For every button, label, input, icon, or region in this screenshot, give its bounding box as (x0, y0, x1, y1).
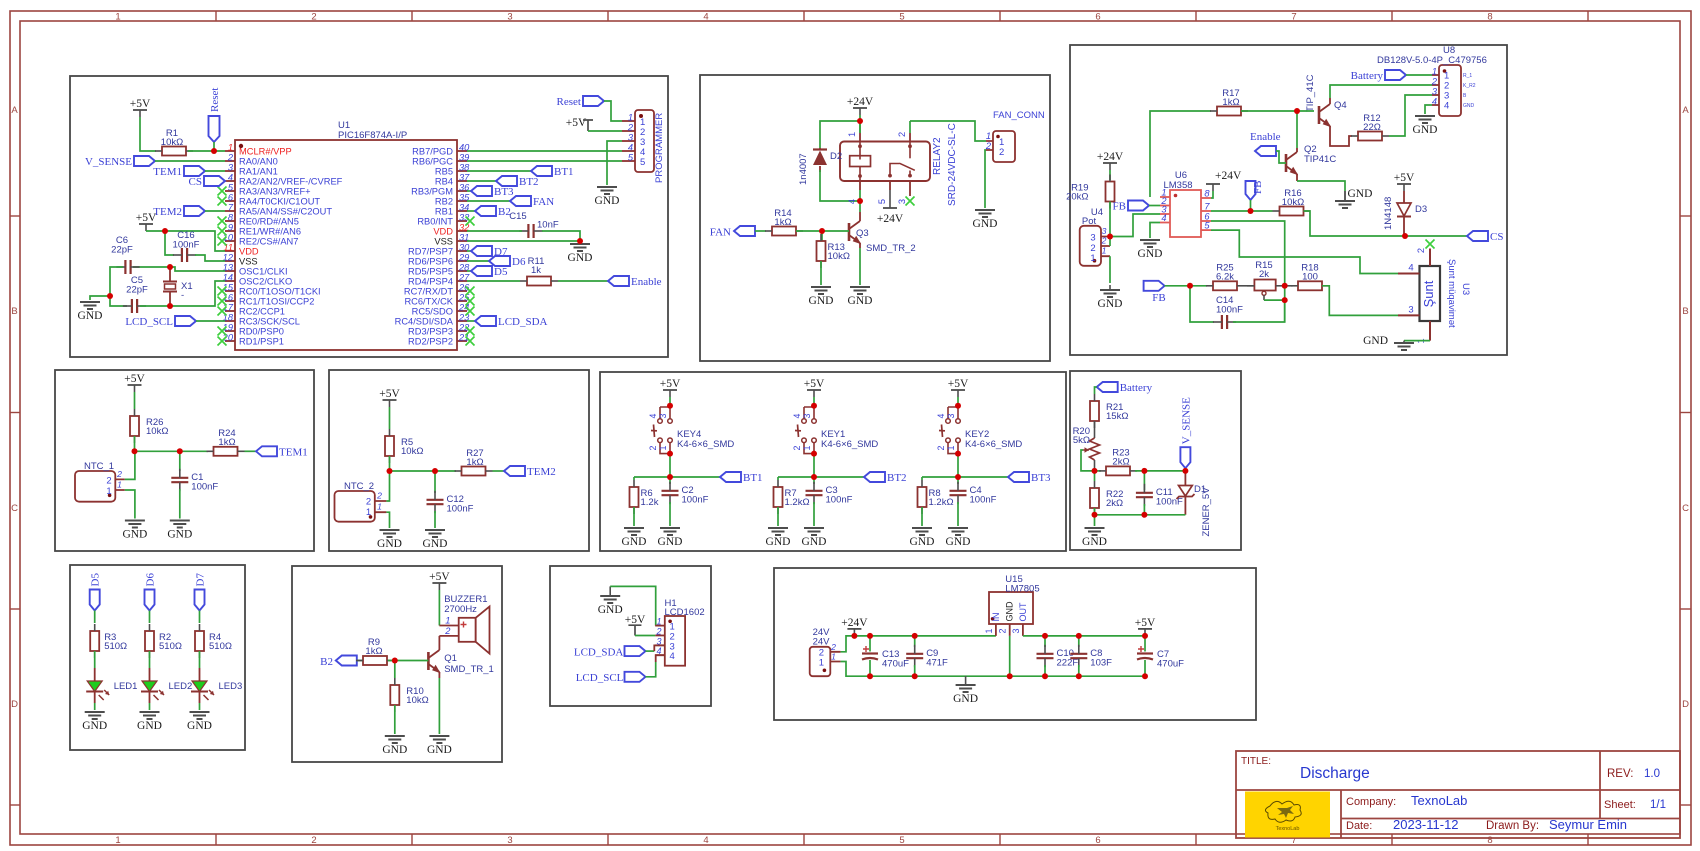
LED LED2 (141, 668, 192, 703)
svg-text:BT1: BT1 (554, 166, 574, 178)
wire C8 top (1078, 636, 1080, 647)
wire junction to C4 (957, 477, 959, 484)
svg-text:RB2: RB2 (435, 197, 453, 207)
svg-text:4: 4 (936, 413, 946, 418)
Enable label (1250, 131, 1281, 143)
svg-text:GND: GND (1413, 124, 1438, 136)
net flag TEM2 (153, 206, 205, 218)
wire junction to R24 (135, 450, 209, 452)
wire R27 to TEM2 (493, 470, 505, 472)
svg-text:19: 19 (223, 323, 233, 333)
junction (1142, 673, 1148, 679)
svg-text:10kΩ: 10kΩ (1282, 197, 1304, 208)
block border: discharge control section (1070, 45, 1507, 355)
ground (FAN_CONN) (973, 210, 998, 230)
wire R19 to pot junction (1109, 202, 1111, 237)
crystal X1 (163, 267, 193, 306)
junction (1187, 283, 1193, 289)
resistor R11 (520, 256, 558, 286)
svg-text:4: 4 (1432, 97, 1437, 107)
pin4 jog (656, 655, 665, 662)
svg-text:+5V: +5V (379, 388, 400, 400)
ground (LCD pin1) (598, 586, 623, 616)
no-connect X (218, 327, 227, 336)
power +5V KEY4 (660, 378, 681, 397)
wire U6 pin6 down to C14 junction (1211, 221, 1285, 322)
ground (VDD bypass) (568, 244, 593, 264)
svg-text:GND: GND (78, 310, 103, 322)
svg-text:BT3: BT3 (1031, 472, 1051, 484)
junction (167, 264, 173, 270)
svg-text:D7: D7 (195, 573, 207, 587)
svg-text:A: A (11, 105, 18, 116)
net flag D5 (90, 573, 102, 611)
svg-text:1: 1 (1432, 67, 1437, 77)
ground (C2) (658, 528, 683, 548)
svg-text:GND: GND (802, 536, 827, 548)
no-connect X (466, 307, 475, 316)
wire FB to R25 (1165, 285, 1207, 287)
svg-text:471F: 471F (926, 658, 948, 669)
wire R9 to Q1 base (388, 660, 428, 662)
wire R2 to LED (149, 651, 151, 668)
svg-text:1: 1 (115, 835, 120, 846)
svg-text:Pot: Pot (1082, 216, 1097, 227)
junction (1282, 283, 1288, 289)
resistor R16 (1273, 188, 1311, 216)
svg-text:+24V: +24V (1215, 170, 1242, 182)
net flag D6 (489, 256, 526, 268)
svg-text:+5V: +5V (948, 378, 969, 390)
junction (162, 228, 168, 234)
svg-text:100nF: 100nF (970, 495, 997, 506)
column ticks bottom (216, 834, 1588, 845)
LED LED1 (86, 668, 137, 703)
svg-text:OSC2/CLKO: OSC2/CLKO (239, 277, 292, 287)
wire to C16 (165, 231, 174, 255)
svg-text:LED3: LED3 (219, 681, 243, 692)
block border: buzzer section (292, 566, 502, 762)
wire junction to R18 (1285, 285, 1293, 287)
ground (psu) (953, 676, 978, 705)
wire R10 to GND (394, 705, 396, 734)
ground (R10) (382, 736, 407, 756)
svg-text:GND: GND (382, 744, 407, 756)
capacitor C15 (509, 211, 559, 238)
resistor R23 (1099, 448, 1137, 476)
svg-text:Drawn By:: Drawn By: (1486, 820, 1539, 832)
resistor R2 (145, 624, 182, 658)
svg-text:+5V: +5V (429, 571, 450, 583)
capacitor C14 (1213, 295, 1243, 329)
wire gnd rail to C5 (110, 296, 127, 306)
wire R18 to shunt pin3 (1322, 286, 1398, 316)
svg-text:RD6/PSP6: RD6/PSP6 (408, 257, 453, 267)
svg-text:5: 5 (640, 157, 645, 168)
net flag V_SENSE (85, 156, 155, 168)
svg-text:1.2kΩ: 1.2kΩ (785, 497, 810, 508)
svg-text:RD7/PSP7: RD7/PSP7 (408, 247, 453, 257)
svg-text:LM358: LM358 (1163, 180, 1192, 191)
svg-text:B: B (11, 306, 17, 317)
wire junction to R22 (1094, 471, 1096, 481)
wire R6 to GND (633, 507, 635, 526)
svg-text:GND: GND (1463, 103, 1475, 109)
transistor Q1 (428, 650, 440, 673)
net flag LCD_SCL (out) (625, 672, 646, 682)
wire Battery to U8 pin1 (1406, 74, 1432, 76)
svg-text:24V: 24V (813, 637, 831, 648)
wire BT2 row (778, 476, 864, 478)
wire pin27 to R11 (467, 280, 520, 282)
resistor R22 (1090, 481, 1123, 515)
wire LCD_SCL (646, 662, 656, 677)
wire LED2 to GND (149, 703, 151, 710)
no-connect X (218, 297, 227, 306)
svg-text:D2: D2 (830, 151, 842, 162)
wire C8 bottom (1078, 665, 1080, 676)
net flag TEM1 (153, 166, 205, 178)
zener diode D1 ZENER_5V (1177, 471, 1213, 537)
wire R20 wiper to junction (1081, 450, 1095, 471)
wire +5V to R26 (134, 392, 136, 409)
power +5V (136, 212, 157, 231)
relay pin stubs and numbers (847, 121, 910, 208)
wire C14 to R15 junction (1233, 300, 1285, 322)
svg-text:RD3/PSP3: RD3/PSP3 (408, 327, 453, 337)
title text Discharge (1300, 765, 1370, 782)
net flag FAN (510, 196, 554, 208)
svg-text:GND: GND (1098, 298, 1123, 310)
resistor R26 (130, 409, 168, 443)
U1 left pins 1-20 with names (222, 143, 343, 347)
svg-text:Enable: Enable (1250, 131, 1281, 143)
wire +24V to D2 cathode (820, 121, 860, 148)
svg-text:2: 2 (227, 153, 234, 163)
svg-text:1: 1 (831, 652, 836, 662)
wire to R8 (921, 477, 923, 480)
wire Enable to Q2 base (1276, 151, 1286, 163)
svg-text:4: 4 (792, 413, 802, 418)
svg-text:RB6/PGC: RB6/PGC (412, 157, 453, 167)
svg-text:VSS: VSS (434, 237, 453, 247)
wire top rail right (1023, 635, 1145, 637)
wire LCD_SCL to pin18 (196, 320, 225, 322)
ground (LED2) (137, 712, 162, 732)
wire R12 to U8 pin3 (1389, 95, 1432, 136)
power +5V (psu out) (1135, 617, 1156, 636)
ground (C1) (167, 521, 192, 541)
svg-text:1kΩ: 1kΩ (774, 217, 791, 228)
pin3 jog (654, 645, 665, 651)
svg-text:100nF: 100nF (1156, 497, 1183, 508)
wire pot pin1 to GND (1109, 256, 1111, 283)
wire C7 top (1144, 636, 1146, 652)
svg-text:NTC_2: NTC_2 (344, 481, 374, 492)
net flag D7 (471, 246, 508, 258)
svg-text:2kΩ: 2kΩ (1112, 457, 1129, 468)
wire LCD_SDA (646, 650, 655, 652)
junction (857, 198, 863, 204)
junction (1042, 673, 1048, 679)
svg-text:+24V: +24V (847, 96, 874, 108)
svg-text:RB4: RB4 (435, 177, 453, 187)
svg-text:3: 3 (658, 413, 668, 418)
resistor R5 (385, 429, 423, 463)
net flag BT2 (496, 176, 539, 188)
net flag FAN (input) (734, 226, 755, 236)
svg-text:PIC16F874A-I/P: PIC16F874A-I/P (338, 130, 407, 141)
svg-text:Q4: Q4 (1334, 100, 1347, 111)
resistor R7 (774, 480, 810, 514)
wire NTC pin2 to junction (125, 451, 135, 479)
svg-text:GND: GND (167, 529, 192, 541)
svg-text:RELAY2: RELAY2 (932, 137, 943, 175)
svg-text:LM7805: LM7805 (1005, 584, 1039, 595)
svg-text:1: 1 (986, 131, 991, 141)
power +5V (NTC2) (379, 388, 400, 407)
block border: LED section (70, 565, 245, 750)
wire pin38 to BT1 (467, 170, 531, 172)
wire R4 to LED (199, 651, 201, 668)
resistor R4 (195, 624, 232, 658)
wire C13 top (869, 636, 871, 652)
block border: NTC2 section (329, 370, 589, 551)
wire NTC pin1 to GND (125, 490, 135, 519)
svg-text:GND: GND (953, 693, 978, 705)
svg-text:2: 2 (1416, 248, 1426, 253)
power +5V (LCD) (625, 614, 646, 636)
net flag TEM2 (output) (504, 466, 556, 478)
svg-text:DB128V-5.0-4P_C479756: DB128V-5.0-4P_C479756 (1377, 55, 1487, 66)
svg-text:RD2/PSP2: RD2/PSP2 (408, 337, 453, 347)
svg-text:FAN: FAN (533, 196, 554, 208)
no-connect X (218, 187, 227, 196)
junction (1092, 512, 1098, 518)
svg-text:1kΩ: 1kΩ (466, 457, 483, 468)
net flag Battery (1351, 70, 1406, 82)
power +5V KEY2 (948, 378, 969, 397)
capacitor C6 (111, 235, 139, 274)
wire C3 to GND (813, 502, 815, 526)
svg-text:BT1: BT1 (743, 472, 763, 484)
ground (pot) (1098, 285, 1123, 310)
wire 24V pin1 to bottom rail (841, 662, 1145, 677)
svg-text:1.0: 1.0 (1644, 768, 1660, 780)
junction (955, 474, 961, 480)
svg-text:2: 2 (830, 642, 836, 652)
svg-text:Seymur Emin: Seymur Emin (1549, 817, 1627, 832)
svg-text:MCLR#/VPP: MCLR#/VPP (239, 147, 292, 157)
svg-text:8: 8 (1487, 835, 1492, 846)
svg-text:CS: CS (1490, 231, 1503, 243)
wire R26 to junction (134, 436, 136, 451)
svg-text:8: 8 (1487, 12, 1492, 23)
resistor R21 (1090, 394, 1128, 428)
svg-text:RD1/PSP1: RD1/PSP1 (239, 337, 284, 347)
wire C12 to GND (434, 511, 436, 528)
wire relay pin4 to Q3 collector (859, 201, 861, 212)
wire C13 bottom (869, 660, 871, 676)
block border: keys section (600, 372, 1066, 551)
svg-text:3: 3 (1011, 628, 1021, 633)
net flag Battery (sense) (1097, 382, 1153, 394)
no-connect X (466, 297, 475, 306)
svg-text:4: 4 (1444, 101, 1449, 112)
no-connect X (466, 337, 475, 346)
junction (819, 228, 825, 234)
connector FAN_CONN body (985, 110, 1045, 162)
svg-text:7: 7 (1204, 202, 1210, 212)
wire R13 to GND (820, 261, 822, 285)
svg-text:22pF: 22pF (111, 245, 133, 256)
ground (R6) (622, 528, 647, 548)
ground (U8) (1413, 116, 1438, 136)
svg-text:RA2/AN2/VREF-/CVREF: RA2/AN2/VREF-/CVREF (239, 177, 343, 187)
row ticks left (10, 216, 20, 805)
wire +5V to R1 (140, 117, 156, 151)
wire OSC1 pin13 (170, 267, 225, 271)
svg-text:+5V: +5V (804, 378, 825, 390)
no-connect X (218, 337, 227, 346)
junction (177, 448, 183, 454)
svg-text:26: 26 (458, 283, 470, 293)
net flag FB (1113, 201, 1149, 213)
svg-text:D3: D3 (1415, 204, 1427, 215)
svg-text:1k: 1k (531, 265, 541, 276)
svg-text:2k: 2k (1259, 269, 1269, 280)
svg-text:25: 25 (458, 293, 470, 303)
svg-text:TEM2: TEM2 (153, 206, 182, 218)
wire junction to R10 (394, 661, 396, 679)
wire junction to C12 (434, 471, 436, 493)
svg-text:1: 1 (656, 617, 661, 627)
svg-text:510Ω: 510Ω (209, 641, 232, 652)
svg-text:D6: D6 (512, 256, 526, 268)
svg-text:3: 3 (507, 12, 512, 23)
power +24V (U6 pin8) (1206, 170, 1242, 191)
svg-text:V_SENSE: V_SENSE (85, 156, 132, 168)
svg-text:D5: D5 (90, 573, 102, 587)
net flag B2 (475, 206, 511, 218)
wire R16 to CS flag (1304, 211, 1468, 236)
ground (LED3) (187, 712, 212, 732)
U4 pot pins (1101, 226, 1110, 256)
svg-text:1n4007: 1n4007 (798, 153, 809, 185)
svg-text:+24V: +24V (841, 617, 868, 629)
power +5V KEY1 (804, 378, 825, 397)
svg-text:4: 4 (648, 413, 658, 418)
wire R17 to Q4 base (1241, 110, 1314, 112)
svg-text:RA4/T0CKI/C1OUT: RA4/T0CKI/C1OUT (239, 197, 320, 207)
no-connect X (1426, 240, 1435, 249)
svg-text:1: 1 (847, 132, 857, 137)
D2 label (830, 151, 842, 162)
svg-text:RD0/PSP0: RD0/PSP0 (239, 327, 284, 337)
wire R8 to GND (921, 507, 923, 526)
svg-text:Battery: Battery (1351, 70, 1384, 82)
svg-text:LED2: LED2 (169, 681, 193, 692)
svg-text:3: 3 (802, 413, 812, 418)
svg-text:100nF: 100nF (1216, 305, 1243, 316)
capacitor C5 (123, 275, 148, 313)
svg-text:1: 1 (628, 113, 633, 123)
svg-text:GND: GND (427, 744, 452, 756)
relay RELAY2 SRD-24VDC-SL-C body (840, 123, 958, 206)
svg-text:GND: GND (598, 604, 623, 616)
no-connect X (906, 197, 915, 206)
svg-text:1: 1 (377, 502, 382, 512)
svg-text:GND: GND (122, 529, 147, 541)
wire BT3 row (922, 476, 1008, 478)
svg-text:Sheet:: Sheet: (1604, 799, 1636, 811)
wire R5 to junction (389, 456, 391, 471)
junction (1182, 468, 1188, 474)
junction (955, 451, 961, 457)
wire C1 to GND (179, 489, 181, 519)
wire crystal to OSC2 pin14 (170, 281, 225, 306)
svg-text:RA5/AN4/SS#/C2OUT: RA5/AN4/SS#/C2OUT (239, 207, 332, 217)
wire pin29 to D6 (467, 260, 489, 262)
wire Q2 emitter to GND (1297, 181, 1345, 191)
svg-text:+5V: +5V (660, 378, 681, 390)
junction (577, 238, 583, 244)
U8 pins 1-4 (1431, 67, 1476, 112)
svg-text:1: 1 (946, 445, 956, 450)
wire KEY4 to BT junction (669, 454, 671, 477)
ground (LED1) (82, 712, 107, 732)
wire C6 to gnd rail (110, 267, 123, 296)
wire U8 pin4 to GND (1425, 105, 1432, 114)
svg-text:+5V: +5V (1135, 617, 1156, 629)
net flag BT3 (471, 186, 514, 198)
net flag B2 (input) (336, 656, 357, 666)
svg-text:2: 2 (627, 123, 634, 133)
svg-text:TIP41C: TIP41C (1304, 154, 1336, 165)
resistor R9 (356, 637, 394, 665)
LCD_SCL label left (576, 672, 624, 684)
wire +5V to buzzer pin1 (438, 590, 440, 626)
wire +5V to KEY1 (813, 397, 815, 406)
junction (867, 633, 873, 639)
ground (U6) (1138, 240, 1163, 260)
wire C5 to crystal bottom (140, 305, 170, 307)
svg-text:GND: GND (658, 536, 683, 548)
NTC_1 pins (115, 469, 125, 490)
junction (1141, 512, 1147, 518)
wire NTC2 pin2 to junction (386, 471, 389, 501)
ground (R7) (766, 528, 791, 548)
programmer pins 1-5 (622, 113, 645, 169)
svg-text:TITLE:: TITLE: (1241, 756, 1271, 767)
junction (107, 293, 113, 299)
ground (78, 302, 103, 322)
buzzer BUZZER1 2700Hz (439, 594, 489, 654)
transistor Q4 (1319, 104, 1331, 127)
svg-text:PROGRAMMER: PROGRAMMER (654, 113, 665, 183)
svg-text:1: 1 (445, 616, 450, 626)
block border: relay section (700, 75, 1050, 361)
svg-text:RE1/WR#/AN6: RE1/WR#/AN6 (239, 227, 301, 237)
svg-text:GND: GND (1138, 248, 1163, 260)
junction (811, 474, 817, 480)
junction (811, 403, 817, 409)
net flag D7 (195, 573, 207, 611)
sheet row (1604, 799, 1666, 811)
svg-text:100nF: 100nF (682, 495, 709, 506)
svg-text:510Ω: 510Ω (159, 641, 182, 652)
junction (392, 658, 398, 664)
